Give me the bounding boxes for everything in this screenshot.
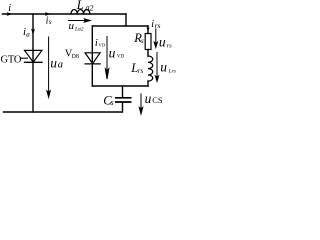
svg-text:a: a [58, 60, 63, 71]
svg-text:s: s [49, 18, 52, 26]
svg-text:CS: CS [152, 96, 163, 105]
svg-text:a: a [26, 30, 30, 38]
svg-text:u: u [50, 55, 57, 70]
svg-text:s: s [111, 98, 114, 107]
svg-text:D8: D8 [72, 54, 79, 60]
svg-text:GTO: GTO [1, 54, 22, 65]
svg-text:s: s [141, 37, 144, 45]
svg-text:rs: rs [155, 21, 161, 30]
svg-text:σ2: σ2 [86, 3, 94, 12]
svg-text:Lσ2: Lσ2 [74, 27, 84, 33]
svg-text:u: u [69, 20, 75, 32]
svg-text:u: u [145, 91, 152, 106]
svg-text:u: u [160, 60, 167, 75]
svg-text:u: u [159, 35, 166, 50]
svg-text:i: i [8, 3, 11, 14]
svg-text:VD: VD [99, 43, 106, 48]
svg-text:i: i [95, 38, 98, 49]
svg-text:VD: VD [117, 55, 125, 60]
svg-text:Lrs: Lrs [168, 68, 176, 74]
svg-text:L: L [76, 0, 84, 12]
svg-text:rs: rs [138, 67, 144, 75]
svg-text:rs: rs [167, 42, 173, 49]
svg-text:u: u [109, 45, 116, 60]
